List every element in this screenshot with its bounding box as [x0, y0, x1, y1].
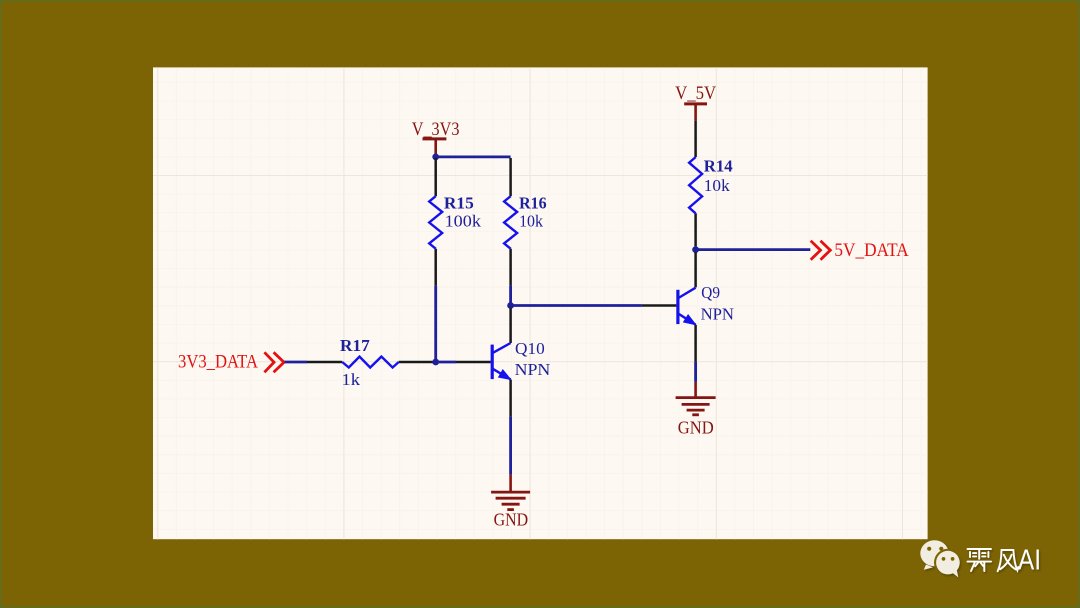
svg-text:5V_DATA: 5V_DATA — [834, 240, 909, 261]
junction node C — [432, 359, 439, 366]
svg-text:R15: R15 — [444, 194, 474, 213]
wire R15 bottom to node C — [434, 286, 437, 362]
svg-text:NPN: NPN — [701, 305, 734, 324]
wire R16 bottom to node B — [509, 286, 512, 306]
big bubble eyes — [927, 547, 943, 551]
svg-text:R14: R14 — [704, 157, 733, 176]
resistor R15 — [429, 158, 481, 286]
logo wechat big chat bubble — [920, 540, 948, 570]
ground symbol GND Q9 — [676, 382, 716, 437]
schematic sheet panel — [153, 67, 928, 539]
wire node C to Q10 base — [436, 361, 456, 364]
wire Q9 emitter to ground — [694, 362, 697, 382]
svg-text:V_3V3: V_3V3 — [412, 119, 460, 140]
svg-text:V_5V: V_5V — [675, 83, 716, 104]
wire node D to output port — [696, 248, 811, 251]
resistor R17 — [307, 336, 433, 389]
svg-text:AI: AI — [1018, 545, 1041, 577]
junction node B — [507, 302, 514, 309]
junction node A — [432, 154, 439, 161]
brand glyph feng — [998, 550, 1019, 571]
svg-text:Q9: Q9 — [701, 283, 720, 302]
resistor R16 — [504, 158, 546, 286]
transistor Q9 — [642, 252, 734, 362]
svg-text:100k: 100k — [445, 212, 482, 231]
svg-text:R16: R16 — [519, 194, 547, 213]
svg-text:10k: 10k — [704, 176, 730, 195]
svg-text:R17: R17 — [340, 336, 370, 355]
junction node D — [692, 246, 699, 253]
svg-text:Q10: Q10 — [515, 339, 545, 358]
wire port to R17 — [285, 361, 308, 364]
brand glyph ji — [968, 549, 992, 571]
port 5V_DATA — [811, 240, 909, 261]
ground symbol GND Q10 — [491, 475, 530, 530]
svg-text:GND: GND — [494, 509, 529, 529]
svg-text:NPN: NPN — [515, 360, 551, 379]
transistor Q10 — [456, 308, 550, 417]
port 3V3_DATA — [178, 351, 284, 372]
power symbol V_5V — [675, 83, 716, 121]
wire Q10 emitter to ground — [509, 417, 512, 475]
svg-text:3V3_DATA: 3V3_DATA — [178, 351, 258, 372]
power symbol V_3V3 — [412, 119, 460, 156]
resistor R14 — [689, 121, 733, 247]
ring gap around small bubble — [934, 549, 962, 577]
small bubble eyes — [942, 557, 955, 561]
logo wechat small chat bubble — [936, 551, 960, 578]
wire node B to Q9 base — [511, 304, 642, 307]
svg-text:GND: GND — [678, 417, 714, 437]
svg-text:1k: 1k — [342, 370, 361, 389]
svg-text:10k: 10k — [519, 212, 543, 231]
wire V_3V3 bus to R16 — [436, 155, 511, 158]
